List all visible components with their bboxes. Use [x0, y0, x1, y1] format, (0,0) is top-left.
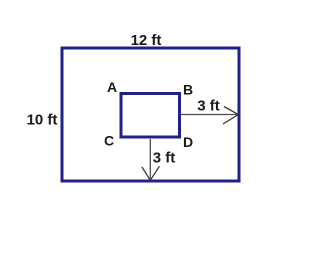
- outer rectangle (12 ft x 10 ft room): [62, 48, 239, 181]
- down arrow head: [142, 166, 160, 180]
- svg-text:D: D: [183, 134, 193, 150]
- svg-text:B: B: [183, 82, 193, 98]
- svg-text:A: A: [107, 79, 117, 95]
- right arrow shaft: [181, 114, 238, 116]
- down arrow shaft: [149, 139, 151, 180]
- inner rectangle ABCD: [121, 94, 180, 138]
- svg-text:3 ft: 3 ft: [153, 150, 176, 167]
- svg-text:C: C: [104, 133, 114, 149]
- svg-text:3 ft: 3 ft: [197, 98, 220, 115]
- svg-text:10 ft: 10 ft: [27, 112, 58, 129]
- svg-text:12 ft: 12 ft: [131, 32, 162, 49]
- right arrow head: [223, 107, 238, 125]
